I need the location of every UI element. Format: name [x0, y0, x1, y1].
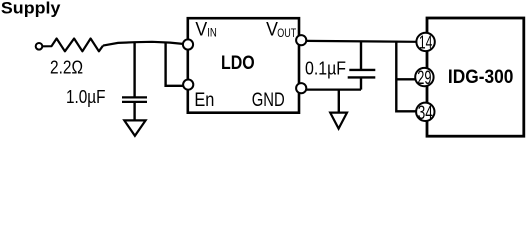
svg-text:2.2Ω: 2.2Ω	[50, 57, 83, 78]
ground symbol GND2	[330, 113, 347, 129]
wire GND pin to C2	[306, 88, 361, 90]
svg-text:En: En	[194, 90, 214, 111]
wire branch down to ground GND2	[338, 90, 340, 113]
pin 14 circle	[416, 33, 434, 51]
pin 34 circle	[416, 103, 434, 121]
wire vertical bus to pins 29 and 34	[396, 41, 416, 111]
wire resistor to VIN pin	[103, 42, 184, 46]
wire branch down to capacitor C1	[133, 42, 135, 97]
svg-text:OUT: OUT	[277, 28, 296, 40]
svg-text:V: V	[266, 18, 278, 40]
svg-text:V: V	[195, 18, 207, 40]
pin 29 circle	[415, 68, 433, 86]
svg-text:GND: GND	[252, 90, 285, 111]
capacitor C2 0.1uF plates	[349, 69, 375, 71]
svg-text:LDO: LDO	[221, 52, 255, 74]
pin GND circle	[296, 83, 306, 93]
svg-text:1.0µF: 1.0µF	[66, 86, 106, 107]
svg-text:IN: IN	[207, 27, 217, 39]
IDG-300 box U2	[427, 18, 524, 136]
capacitor C1 1.0uF plates	[122, 96, 147, 98]
wire stub to pin 29	[396, 78, 416, 80]
pin VOUT circle	[296, 35, 306, 45]
pin En circle	[183, 80, 193, 90]
svg-text:Supply: Supply	[1, 0, 61, 18]
wire VOUT to pin 14	[306, 40, 416, 43]
svg-text:14: 14	[419, 32, 433, 53]
wire C2 bottom to GND wire	[360, 77, 362, 89]
pin VIN circle	[183, 39, 193, 49]
svg-text:0.1µF: 0.1µF	[305, 57, 346, 78]
resistor R1 2.2ohm zigzag	[43, 39, 103, 52]
wire branch to En pin	[166, 42, 183, 86]
ground symbol GND1	[124, 120, 145, 135]
wire branch down to capacitor C2	[360, 41, 362, 70]
input terminal circle	[36, 43, 43, 50]
svg-text:IDG-300: IDG-300	[448, 66, 514, 88]
svg-text:34: 34	[418, 103, 433, 124]
svg-text:29: 29	[417, 68, 431, 89]
LDO box U1	[188, 18, 299, 113]
wire C1 to ground	[133, 102, 135, 121]
